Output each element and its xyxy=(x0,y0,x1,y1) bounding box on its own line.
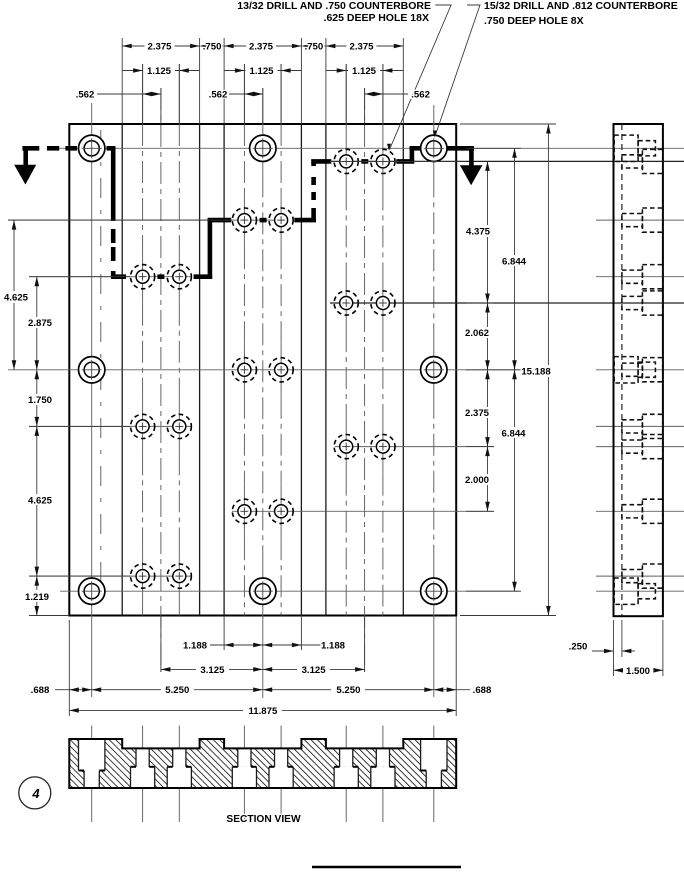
svg-text:1.125: 1.125 xyxy=(147,66,172,77)
hidden counterbored hole 13/32 #13 xyxy=(334,149,358,173)
left rail hole column line xyxy=(91,103,93,697)
section 13/32 holes with counterbores xyxy=(136,748,149,766)
svg-text:2.062: 2.062 xyxy=(465,328,489,339)
svg-text:11.875: 11.875 xyxy=(248,706,277,717)
hole column line pair F xyxy=(382,64,384,124)
svg-text:1.188: 1.188 xyxy=(183,641,208,652)
svg-text:1.500: 1.500 xyxy=(626,666,650,677)
block centerline left (dash-dot) xyxy=(160,88,162,672)
svg-text:.750: .750 xyxy=(203,42,222,53)
svg-text:1.188: 1.188 xyxy=(321,641,346,652)
dimension row 1.125 hole pairs xyxy=(123,70,143,72)
row line mid holes xyxy=(8,369,519,371)
counterbored hole 15/32 #6 xyxy=(79,578,105,604)
svg-text:5.250: 5.250 xyxy=(336,685,360,696)
row line left pair 3 side xyxy=(596,575,684,577)
center column centerline (dash-dot) xyxy=(262,88,264,124)
dimension row 2.375/.750 blocks xyxy=(122,45,144,47)
svg-text:5.250: 5.250 xyxy=(165,685,189,696)
svg-text:4.625: 4.625 xyxy=(28,496,53,507)
hidden counterbored hole 13/32 #7 xyxy=(232,208,256,232)
hidden counterbored hole 13/32 #4 xyxy=(167,414,191,438)
svg-text:2.875: 2.875 xyxy=(28,318,53,329)
hidden counterbored hole 13/32 #5 xyxy=(131,564,155,588)
hidden counterbored hole 13/32 #17 xyxy=(334,435,358,459)
svg-text:.688: .688 xyxy=(31,685,50,696)
hole column line pair A xyxy=(142,64,144,124)
row line left pair 1 xyxy=(29,276,192,278)
hidden counterbored hole 13/32 #12 xyxy=(269,499,293,523)
bottom dimension rows xyxy=(68,620,70,716)
hole column line pair C xyxy=(243,64,245,124)
row line right pair 3 xyxy=(335,446,494,448)
svg-text:4.625: 4.625 xyxy=(4,293,29,304)
hidden counterbored hole 13/32 #6 xyxy=(167,564,191,588)
hidden counterbored hole 13/32 #2 xyxy=(167,265,191,289)
row line left pair 2 side xyxy=(596,425,684,427)
svg-text:1.750: 1.750 xyxy=(28,395,52,406)
svg-text:.750 DEEP HOLE 8X: .750 DEEP HOLE 8X xyxy=(484,15,584,27)
svg-text:.750: .750 xyxy=(305,42,324,53)
hidden counterbored hole 13/32 #15 xyxy=(334,291,358,315)
hidden counterbored hole 13/32 #16 xyxy=(371,291,395,315)
hidden counterbored hole 13/32 #18 xyxy=(371,435,395,459)
row line center pair 1 side xyxy=(596,219,684,221)
side view dimensions xyxy=(613,620,615,676)
svg-text:6.844: 6.844 xyxy=(501,429,526,440)
svg-text:2.375: 2.375 xyxy=(349,42,374,53)
svg-text:SECTION VIEW: SECTION VIEW xyxy=(226,814,301,825)
row line right pair 3 side xyxy=(596,446,684,448)
hidden counterbored hole 13/32 #14 xyxy=(371,149,395,173)
svg-text:4: 4 xyxy=(31,786,40,801)
plate slot edge line 1 xyxy=(121,124,123,616)
plate slot edge line 4 xyxy=(300,124,302,616)
row line bottom holes xyxy=(60,590,519,592)
row line left pair 3 xyxy=(29,575,192,577)
side view hidden 13/32 holes xyxy=(622,155,643,168)
svg-text:.562: .562 xyxy=(209,90,228,101)
hole column line pair B xyxy=(178,64,180,124)
row line bottom holes side xyxy=(596,590,684,592)
section view hole centerlines xyxy=(91,726,93,823)
side view hidden depth line xyxy=(621,124,623,616)
hidden counterbored hole 13/32 #8 xyxy=(269,208,293,232)
svg-text:1.125: 1.125 xyxy=(352,66,377,77)
svg-text:15.188: 15.188 xyxy=(521,367,551,378)
row line mid holes side view xyxy=(596,369,684,371)
svg-text:6.844: 6.844 xyxy=(502,257,527,268)
hidden counterbored hole 13/32 #1 xyxy=(131,265,155,289)
counterbored hole 15/32 #7 xyxy=(250,578,276,604)
section rail holes 15/32 xyxy=(79,739,105,771)
leader line 13/32 xyxy=(390,5,452,150)
top dimension extension lines xyxy=(121,38,123,124)
section view hatched body xyxy=(69,739,456,788)
svg-text:13/32 DRILL AND .750 COUNTERBO: 13/32 DRILL AND .750 COUNTERBORE xyxy=(237,0,431,12)
svg-text:.562: .562 xyxy=(76,90,95,101)
side view outline xyxy=(614,124,663,616)
plate outline main view xyxy=(69,124,456,616)
plate slot edge line 2 xyxy=(199,124,201,616)
svg-text:2.375: 2.375 xyxy=(147,42,172,53)
svg-text:3.125: 3.125 xyxy=(200,665,225,676)
leader line 15/32 xyxy=(435,5,480,136)
right rail hole column line xyxy=(433,105,435,124)
side view hidden 15/32 holes xyxy=(614,135,638,161)
counterbored hole 15/32 #8 xyxy=(421,578,447,604)
svg-text:15/32 DRILL AND .812 COUNTERBO: 15/32 DRILL AND .812 COUNTERBORE xyxy=(484,0,678,12)
row line center pair 3 xyxy=(232,510,494,512)
row line right pair 1 xyxy=(316,160,684,162)
svg-text:2.000: 2.000 xyxy=(465,475,489,486)
row line center pair 3 side xyxy=(596,510,684,512)
hidden counterbored hole 13/32 #9 xyxy=(232,358,256,382)
bottom border line xyxy=(312,866,461,869)
counterbored hole 15/32 #2 xyxy=(250,135,276,161)
svg-text:.250: .250 xyxy=(569,642,588,653)
hole column line pair D xyxy=(280,64,282,124)
hidden counterbored hole 13/32 #3 xyxy=(131,414,155,438)
balloon circle 4 xyxy=(19,777,51,809)
hole column line pair E xyxy=(345,64,347,124)
hidden counterbored hole 13/32 #11 xyxy=(232,499,256,523)
svg-text:3.125: 3.125 xyxy=(302,665,327,676)
section view outline xyxy=(69,739,456,788)
row line center pair 1 xyxy=(8,219,282,221)
svg-text:1.219: 1.219 xyxy=(25,592,49,603)
svg-text:.562: .562 xyxy=(411,90,430,101)
plate slot edge line 6 xyxy=(402,124,404,616)
svg-text:2.375: 2.375 xyxy=(465,408,490,419)
svg-text:2.375: 2.375 xyxy=(249,42,274,53)
plate slot edge line 5 xyxy=(325,124,327,616)
counterbored hole 15/32 #1 xyxy=(79,135,105,161)
right dimension columns xyxy=(330,160,466,162)
row line left pair 1 side xyxy=(596,276,684,278)
svg-text:.625 DEEP HOLE 18X: .625 DEEP HOLE 18X xyxy=(324,12,429,24)
counterbored hole 15/32 #4 xyxy=(79,357,105,383)
counterbored hole 15/32 #5 xyxy=(421,357,447,383)
block centerline right (dash-dot) xyxy=(364,88,366,672)
row line top holes xyxy=(58,147,684,149)
left dimension column xyxy=(8,219,232,221)
counterbored hole 15/32 #3 xyxy=(421,135,447,161)
row line right pair 2 xyxy=(330,302,684,304)
plate slot edge line 3 xyxy=(223,124,225,616)
row line left pair 2 xyxy=(29,425,192,427)
svg-text:.688: .688 xyxy=(473,685,492,696)
svg-text:1.125: 1.125 xyxy=(249,66,274,77)
hidden counterbored hole 13/32 #10 xyxy=(269,358,293,382)
left rail inner centerline (dash-dot) xyxy=(100,130,102,610)
section cutting plane line with arrows xyxy=(22,146,39,151)
svg-text:4.375: 4.375 xyxy=(466,227,491,238)
